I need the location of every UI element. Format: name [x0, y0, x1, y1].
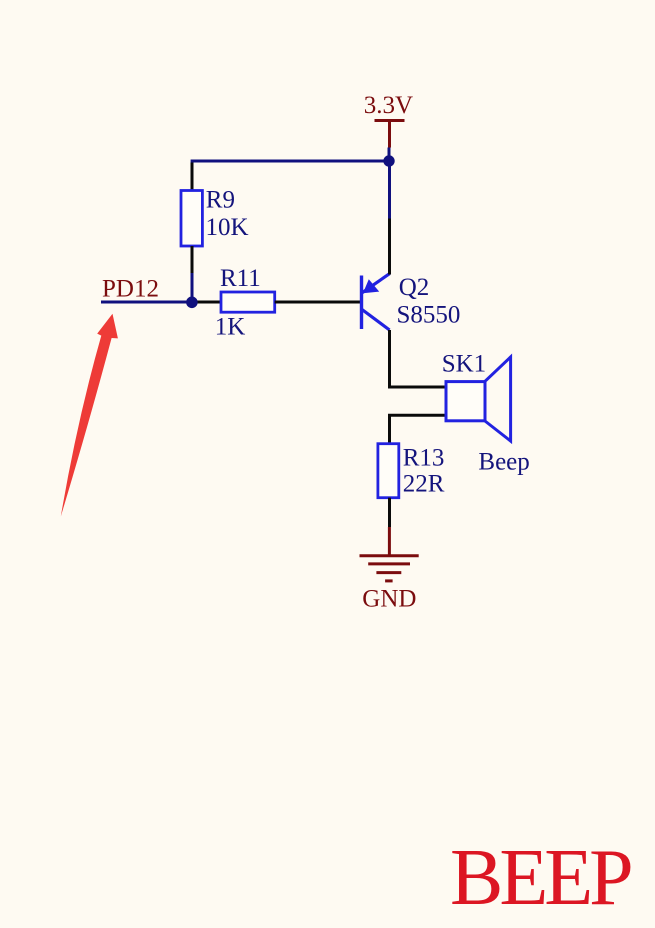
- wire: PD12 net horizontal: [101, 301, 192, 304]
- resistor R9 top pin: [191, 163, 194, 191]
- ground bar 2: [368, 562, 410, 565]
- transistor Q2 collector diagonal: [362, 310, 390, 331]
- wire: R9 to node PD12: [191, 273, 194, 302]
- power port 3.3V bar: [375, 119, 405, 122]
- junction node PD12 dot: [186, 297, 198, 309]
- svg-text:10K: 10K: [206, 214, 249, 241]
- resistor R11 right pin / Q2 base pin: [275, 301, 362, 304]
- resistor R9 body: [181, 191, 202, 247]
- resistor R9 bottom pin: [191, 246, 194, 273]
- svg-text:22R: 22R: [403, 470, 445, 497]
- resistor R13 body: [378, 444, 399, 498]
- ground bar 4: [385, 579, 393, 582]
- transistor Q2 emitter arrowhead: [363, 279, 379, 293]
- wire: rail down to Q2 emitter: [388, 161, 391, 219]
- svg-text:Q2: Q2: [399, 274, 430, 301]
- annotation arrow pointing at PD12: [61, 314, 118, 517]
- svg-text:S8550: S8550: [397, 301, 461, 328]
- resistor R11 left pin: [192, 301, 221, 304]
- svg-text:Beep: Beep: [478, 449, 529, 476]
- ground bar 3: [376, 571, 401, 574]
- power port 3.3V stem: [388, 121, 391, 148]
- svg-text:SK1: SK1: [442, 350, 486, 377]
- svg-text:GND: GND: [362, 586, 416, 613]
- svg-text:R11: R11: [220, 265, 261, 292]
- ground bar 1: [360, 554, 419, 557]
- transistor Q2 emitter diagonal: [362, 274, 390, 293]
- resistor R11 body: [221, 292, 275, 312]
- svg-text:PD12: PD12: [102, 275, 159, 302]
- svg-text:1K: 1K: [215, 313, 246, 340]
- transistor Q2 emitter pin up: [388, 219, 391, 275]
- svg-text:BEEP: BEEP: [450, 834, 631, 922]
- junction dot at 3.3V rail: [383, 155, 394, 166]
- speaker SK1 horn: [485, 357, 511, 441]
- ground stem: [388, 527, 391, 556]
- svg-text:3.3V: 3.3V: [364, 92, 413, 119]
- svg-text:R9: R9: [206, 186, 235, 213]
- transistor Q2 base bar: [360, 276, 363, 330]
- wire: Q2 collector to speaker SK1 top pin: [390, 330, 447, 387]
- wire: 3.3V stem to rail: [388, 148, 391, 162]
- wire: speaker SK1 bottom pin to R13: [390, 415, 447, 444]
- speaker SK1 body: [446, 382, 485, 421]
- wire: top rail horizontal: [191, 160, 389, 163]
- resistor R13 bottom pin: [388, 498, 391, 527]
- svg-text:R13: R13: [403, 445, 445, 472]
